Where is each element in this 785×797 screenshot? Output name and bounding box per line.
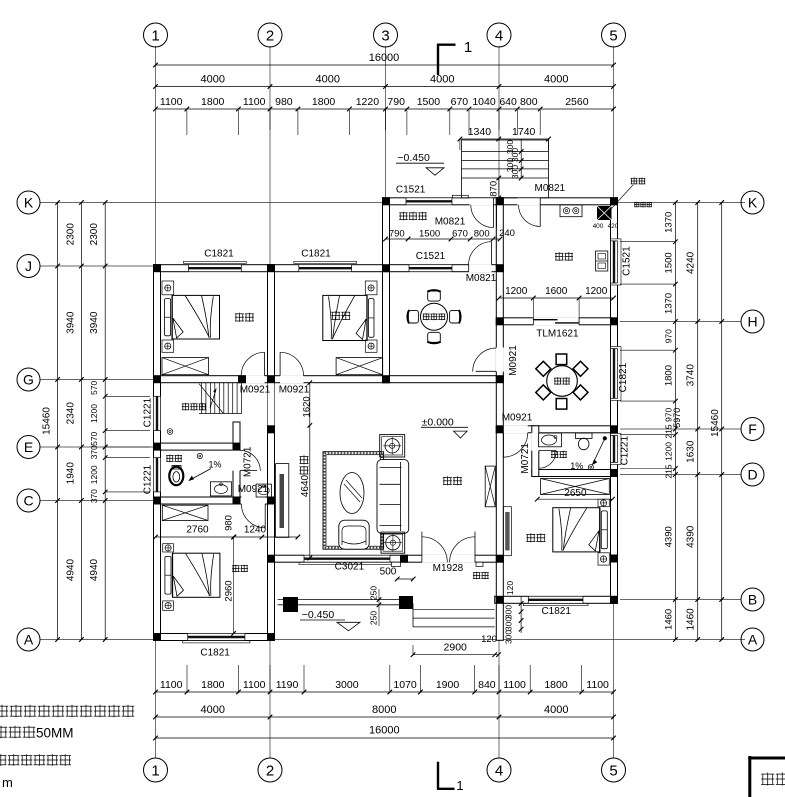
svg-text:1: 1 bbox=[151, 27, 159, 44]
svg-text:800: 800 bbox=[474, 229, 490, 240]
svg-text:1200: 1200 bbox=[585, 286, 608, 297]
svg-text:1620: 1620 bbox=[301, 396, 312, 417]
svg-text:1800: 1800 bbox=[664, 365, 675, 386]
svg-text:3: 3 bbox=[381, 27, 389, 44]
svg-text:M0921: M0921 bbox=[508, 345, 519, 376]
svg-text:3000: 3000 bbox=[335, 679, 359, 691]
svg-text:M0921: M0921 bbox=[238, 484, 269, 495]
svg-text:1370: 1370 bbox=[664, 212, 675, 233]
svg-text:2760: 2760 bbox=[186, 525, 209, 536]
svg-text:4000: 4000 bbox=[544, 704, 568, 716]
svg-text:790: 790 bbox=[389, 229, 405, 240]
svg-text:3940: 3940 bbox=[66, 311, 77, 334]
svg-text:2: 2 bbox=[266, 27, 274, 44]
svg-text:K: K bbox=[24, 195, 34, 211]
svg-text:8000: 8000 bbox=[372, 704, 396, 716]
svg-text:2560: 2560 bbox=[565, 96, 589, 108]
svg-text:1500: 1500 bbox=[664, 252, 675, 273]
svg-text:790: 790 bbox=[387, 96, 405, 108]
svg-text:5: 5 bbox=[609, 762, 617, 779]
svg-text:5970: 5970 bbox=[672, 408, 682, 428]
svg-text:−0.450: −0.450 bbox=[397, 152, 430, 164]
svg-text:840: 840 bbox=[478, 679, 496, 691]
svg-text:1040: 1040 bbox=[472, 96, 496, 108]
svg-text:570: 570 bbox=[89, 431, 99, 445]
svg-text:120: 120 bbox=[505, 581, 515, 595]
svg-text:1940: 1940 bbox=[66, 462, 77, 485]
svg-text:120: 120 bbox=[481, 634, 497, 645]
svg-text:1600: 1600 bbox=[545, 286, 568, 297]
svg-text:C1521: C1521 bbox=[416, 251, 446, 262]
svg-text:C: C bbox=[23, 493, 33, 509]
svg-text:4940: 4940 bbox=[89, 558, 100, 581]
svg-text:1100: 1100 bbox=[586, 679, 609, 691]
svg-text:D: D bbox=[747, 467, 757, 483]
svg-text:400: 400 bbox=[593, 223, 604, 230]
svg-text:50MM: 50MM bbox=[36, 726, 74, 741]
svg-text:B: B bbox=[748, 592, 757, 608]
svg-text:300: 300 bbox=[504, 630, 514, 644]
svg-text:J: J bbox=[25, 258, 32, 274]
svg-text:250: 250 bbox=[369, 611, 379, 625]
svg-text:970: 970 bbox=[664, 329, 674, 343]
svg-text:4240: 4240 bbox=[686, 251, 697, 274]
svg-text:C1821: C1821 bbox=[301, 249, 331, 260]
svg-text:A: A bbox=[24, 632, 34, 648]
svg-text:TLM1621: TLM1621 bbox=[536, 329, 579, 340]
svg-text:4: 4 bbox=[495, 27, 503, 44]
svg-text:m: m bbox=[2, 775, 13, 790]
svg-text:4940: 4940 bbox=[66, 558, 77, 581]
svg-text:1100: 1100 bbox=[243, 96, 266, 108]
svg-text:980: 980 bbox=[275, 96, 293, 108]
svg-text:1340: 1340 bbox=[468, 126, 492, 138]
svg-text:1500: 1500 bbox=[417, 96, 441, 108]
svg-text:1460: 1460 bbox=[664, 609, 675, 630]
svg-text:1070: 1070 bbox=[393, 679, 417, 691]
svg-text:−0.450: −0.450 bbox=[302, 609, 335, 621]
svg-text:C1821: C1821 bbox=[618, 362, 629, 392]
svg-text:M0821: M0821 bbox=[535, 183, 566, 194]
svg-text:2340: 2340 bbox=[66, 402, 77, 425]
svg-text:980: 980 bbox=[224, 515, 235, 531]
svg-text:C3021: C3021 bbox=[335, 562, 365, 573]
svg-text:4000: 4000 bbox=[544, 74, 568, 86]
svg-text:H: H bbox=[747, 314, 757, 330]
svg-text:1200: 1200 bbox=[89, 465, 99, 484]
svg-text:2960: 2960 bbox=[224, 580, 235, 601]
svg-text:2900: 2900 bbox=[444, 642, 468, 654]
svg-text:1800: 1800 bbox=[312, 96, 336, 108]
svg-text:C1821: C1821 bbox=[200, 648, 230, 659]
svg-text:300: 300 bbox=[510, 165, 520, 179]
svg-text:215: 215 bbox=[664, 464, 674, 478]
svg-text:16000: 16000 bbox=[369, 52, 400, 64]
svg-text:2650: 2650 bbox=[564, 488, 587, 499]
svg-text:370: 370 bbox=[89, 445, 99, 459]
svg-text:4000: 4000 bbox=[316, 74, 340, 86]
svg-text:250: 250 bbox=[369, 586, 379, 600]
svg-text:2300: 2300 bbox=[66, 223, 77, 246]
svg-text:1800: 1800 bbox=[544, 679, 568, 691]
svg-text:2: 2 bbox=[266, 762, 274, 779]
svg-text:1100: 1100 bbox=[243, 679, 266, 691]
svg-text:1740: 1740 bbox=[512, 126, 536, 138]
svg-text:C1521: C1521 bbox=[621, 246, 632, 276]
svg-text:C1821: C1821 bbox=[204, 249, 234, 260]
svg-text:1%: 1% bbox=[570, 461, 583, 471]
svg-text:16000: 16000 bbox=[369, 725, 400, 737]
svg-text:1800: 1800 bbox=[201, 96, 225, 108]
svg-text:1370: 1370 bbox=[664, 293, 675, 314]
svg-text:240: 240 bbox=[499, 228, 515, 239]
svg-text:1100: 1100 bbox=[160, 96, 183, 108]
svg-text:M0921: M0921 bbox=[502, 413, 533, 424]
svg-text:1: 1 bbox=[456, 778, 463, 793]
svg-text:F: F bbox=[748, 421, 757, 437]
svg-text:1200: 1200 bbox=[664, 442, 674, 461]
svg-text:M1928: M1928 bbox=[433, 563, 464, 574]
svg-text:420: 420 bbox=[608, 223, 619, 230]
svg-text:3940: 3940 bbox=[89, 311, 100, 334]
svg-text:K: K bbox=[748, 195, 758, 211]
svg-text:5: 5 bbox=[609, 27, 617, 44]
svg-text:500: 500 bbox=[380, 567, 397, 578]
svg-text:15460: 15460 bbox=[710, 409, 721, 437]
svg-text:1220: 1220 bbox=[356, 96, 380, 108]
svg-text:670: 670 bbox=[451, 96, 469, 108]
svg-text:800: 800 bbox=[520, 96, 538, 108]
svg-text:1630: 1630 bbox=[686, 440, 697, 463]
svg-text:A: A bbox=[748, 632, 758, 648]
svg-text:870: 870 bbox=[489, 181, 500, 197]
svg-text:4000: 4000 bbox=[201, 74, 225, 86]
svg-text:M0821: M0821 bbox=[466, 273, 497, 284]
svg-text:1240: 1240 bbox=[244, 525, 267, 536]
svg-text:1500: 1500 bbox=[419, 229, 440, 240]
svg-text:1460: 1460 bbox=[686, 608, 697, 631]
svg-text:4000: 4000 bbox=[201, 704, 225, 716]
svg-text:M0721: M0721 bbox=[242, 446, 253, 477]
svg-text:4390: 4390 bbox=[686, 525, 697, 548]
svg-text:1900: 1900 bbox=[436, 679, 460, 691]
svg-text:15460: 15460 bbox=[42, 407, 53, 435]
svg-text:1100: 1100 bbox=[160, 679, 183, 691]
svg-text:C1521: C1521 bbox=[396, 185, 426, 196]
svg-text:300: 300 bbox=[504, 617, 514, 631]
svg-text:4: 4 bbox=[495, 762, 503, 779]
svg-text:1800: 1800 bbox=[201, 679, 225, 691]
svg-text:M0921: M0921 bbox=[240, 385, 271, 396]
svg-text:1200: 1200 bbox=[89, 404, 99, 423]
svg-text:1100: 1100 bbox=[503, 679, 526, 691]
svg-text:3740: 3740 bbox=[686, 364, 697, 387]
svg-text:670: 670 bbox=[452, 229, 468, 240]
svg-text:M0921: M0921 bbox=[279, 385, 310, 396]
svg-text:1190: 1190 bbox=[276, 679, 299, 691]
svg-text:1: 1 bbox=[151, 762, 159, 779]
svg-text:1%: 1% bbox=[208, 459, 221, 469]
svg-text:±0.000: ±0.000 bbox=[422, 417, 454, 429]
svg-text:4000: 4000 bbox=[430, 74, 454, 86]
svg-text:E: E bbox=[24, 439, 33, 455]
svg-text:M0821: M0821 bbox=[435, 217, 466, 228]
svg-text:C1221: C1221 bbox=[143, 397, 154, 427]
svg-text:1200: 1200 bbox=[505, 286, 528, 297]
svg-text:370: 370 bbox=[89, 489, 99, 503]
svg-text:570: 570 bbox=[89, 381, 99, 395]
svg-text:C1221: C1221 bbox=[143, 464, 154, 494]
svg-text:640: 640 bbox=[499, 96, 517, 108]
svg-text:G: G bbox=[23, 372, 34, 388]
svg-text:4390: 4390 bbox=[664, 526, 675, 547]
svg-text:C1821: C1821 bbox=[541, 606, 571, 617]
svg-text:4640: 4640 bbox=[300, 474, 311, 497]
svg-text:M0721: M0721 bbox=[520, 443, 531, 474]
svg-text:2300: 2300 bbox=[89, 223, 100, 246]
svg-text:C1221: C1221 bbox=[619, 436, 630, 466]
svg-text:1: 1 bbox=[464, 39, 472, 56]
